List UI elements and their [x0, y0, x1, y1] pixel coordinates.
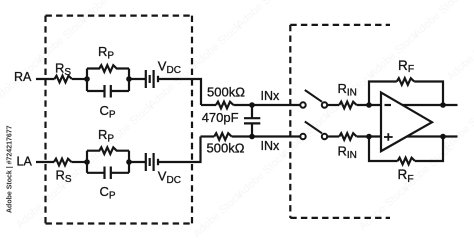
- resistor RIN (bottom): [339, 133, 356, 140]
- switch terminal circle (bottom right): [322, 134, 327, 139]
- op-amp plus input mark: [384, 133, 393, 141]
- wire switch to RIN (top): [327, 104, 339, 106]
- node op-amp plus input: [366, 134, 372, 140]
- svg-text:INx: INx: [261, 89, 281, 103]
- electrode model dashed box: [46, 16, 193, 224]
- svg-text:470pF: 470pF: [202, 110, 239, 125]
- node op-amp minus input: [366, 102, 372, 108]
- svg-text:Adobe Stock | #724217677: Adobe Stock | #724217677: [7, 125, 14, 213]
- node RA-RS junction: [84, 76, 90, 82]
- resistor RIN (top): [339, 102, 356, 109]
- node INx top: [249, 102, 255, 108]
- wire battery out (top): [158, 79, 201, 105]
- wire switch to RIN (bottom): [327, 135, 339, 137]
- resistor RS (top): [55, 76, 72, 83]
- svg-text:INx: INx: [261, 139, 281, 153]
- wire to switch (bottom INx): [232, 135, 301, 137]
- wire RIN to op-amp (top): [357, 104, 381, 106]
- RF feedback loop (top): [369, 82, 397, 106]
- switch terminal circle (top left): [300, 102, 305, 107]
- wire parallel-left riser (bottom): [86, 151, 88, 173]
- node RP-CP right (bottom): [126, 159, 132, 165]
- wire to switch (top INx): [233, 104, 300, 106]
- RF feedback loop (bottom): [369, 137, 398, 162]
- resistor RP (bottom): [87, 147, 129, 154]
- capacitor CP (top): [87, 85, 129, 98]
- wire RA lead: [36, 78, 55, 80]
- wire to node: [71, 161, 87, 163]
- node INx bottom: [249, 134, 255, 140]
- op-amp U1 triangle: [381, 93, 432, 152]
- resistor RF (bottom): [398, 158, 415, 165]
- wire parallel-left riser: [86, 69, 88, 92]
- svg-text:LA: LA: [17, 155, 33, 169]
- node output top: [440, 102, 446, 108]
- wire parallel-right riser (bottom): [128, 151, 130, 173]
- wire RIN to op-amp (bottom): [357, 135, 381, 137]
- battery VDC (top): [146, 70, 158, 88]
- capacitor 470pF: [244, 105, 260, 137]
- wire RF to output node (top): [414, 82, 443, 106]
- wire to node: [72, 78, 87, 80]
- resistor RP (top): [87, 65, 129, 72]
- node output bottom: [440, 134, 446, 140]
- op-amp minus input mark: [385, 104, 392, 106]
- resistor 500k (top): [216, 102, 233, 109]
- switch terminal circle (bottom left): [300, 134, 305, 139]
- wire parallel-right riser: [128, 69, 130, 92]
- battery VDC (bottom): [146, 153, 158, 171]
- resistor 500k (bottom): [214, 133, 231, 140]
- wire output (top): [400, 104, 458, 106]
- resistor RS (bottom): [54, 159, 71, 166]
- capacitor CP (bottom): [87, 167, 129, 180]
- ADC/mux dashed box: [290, 25, 390, 218]
- wire node to battery (bottom): [129, 161, 146, 163]
- node LA-RS junction: [84, 159, 90, 165]
- wire 500k lead: [201, 104, 216, 106]
- switch terminal circle (top right): [322, 102, 327, 107]
- wire node to battery: [129, 78, 146, 80]
- wire LA lead: [36, 161, 54, 163]
- switch blade (bottom): [305, 122, 322, 134]
- wire output (bottom): [400, 135, 458, 137]
- wire RF to output node (bottom): [415, 137, 443, 162]
- resistor RF (top): [397, 78, 414, 85]
- node RP-CP right (top): [126, 76, 132, 82]
- svg-text:500kΩ: 500kΩ: [207, 141, 245, 156]
- wire 500k lead (bottom): [201, 135, 215, 137]
- svg-text:500kΩ: 500kΩ: [207, 85, 245, 100]
- switch blade (top): [305, 90, 322, 102]
- svg-text:RA: RA: [14, 70, 32, 84]
- wire battery out (bottom): [158, 137, 201, 163]
